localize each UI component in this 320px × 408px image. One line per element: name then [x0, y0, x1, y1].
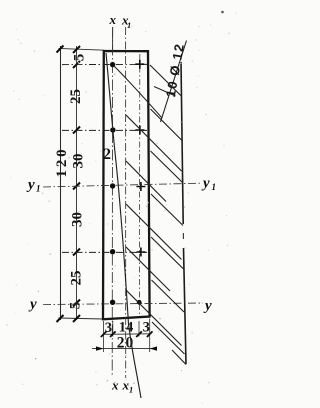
svg-text:1: 1: [212, 182, 217, 192]
svg-text:25: 25: [69, 271, 85, 286]
svg-text:1: 1: [129, 385, 133, 395]
svg-text:x: x: [111, 378, 119, 393]
svg-text:y: y: [203, 298, 212, 314]
svg-text:5: 5: [68, 302, 84, 310]
svg-text:3: 3: [105, 320, 112, 336]
svg-text:120: 120: [54, 147, 70, 178]
svg-text:y: y: [26, 177, 35, 193]
svg-text:2: 2: [103, 146, 111, 163]
svg-text:x: x: [109, 12, 117, 27]
svg-text:30: 30: [71, 154, 87, 169]
svg-text:30: 30: [70, 212, 86, 227]
svg-text:3: 3: [143, 320, 150, 336]
svg-text:1: 1: [127, 20, 131, 30]
svg-text:y: y: [201, 176, 210, 192]
svg-text:y: y: [28, 297, 37, 313]
svg-text:5: 5: [72, 54, 88, 62]
svg-text:1: 1: [36, 184, 41, 194]
svg-text:14: 14: [119, 320, 134, 336]
svg-text:25: 25: [68, 89, 84, 104]
